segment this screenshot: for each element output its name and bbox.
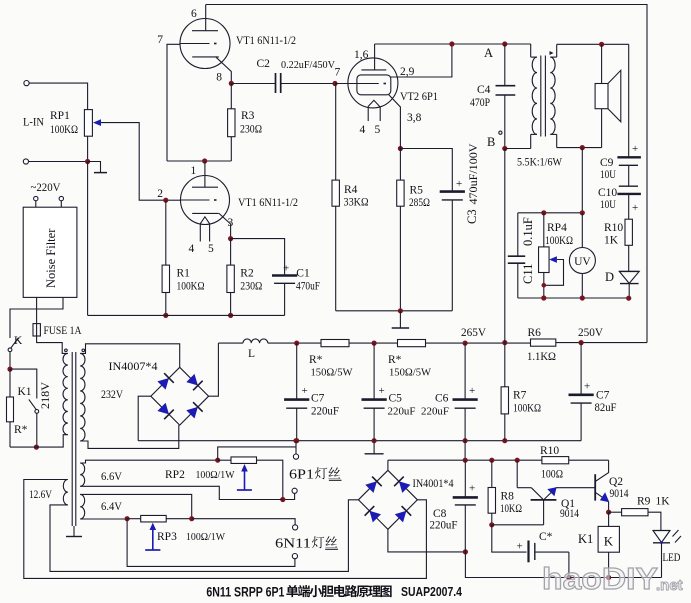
wire C* right down to negative rail <box>568 552 570 577</box>
transformer T1 secondary 232V winding <box>80 353 85 441</box>
svg-text:R4: R4 <box>344 184 358 196</box>
svg-text:220uF: 220uF <box>421 406 449 418</box>
svg-text:470P: 470P <box>470 97 490 109</box>
svg-text:100KΩ: 100KΩ <box>513 403 541 415</box>
svg-text:3: 3 <box>228 217 234 229</box>
transformer T2 secondary winding <box>550 57 555 134</box>
wire ground rail under R1 R2 C1 <box>88 314 285 316</box>
svg-text:6N11: 6N11 <box>275 536 311 551</box>
node RP2 right bottom <box>280 497 285 502</box>
svg-text:RP2: RP2 <box>165 469 185 481</box>
svg-text:100Ω/1W: 100Ω/1W <box>196 469 236 481</box>
svg-text:B: B <box>487 135 495 149</box>
wire VT2 top to output transformer <box>375 43 531 45</box>
capacitor C8 220uF <box>464 460 466 497</box>
wire B+ filter rail <box>218 342 243 344</box>
svg-text:232V: 232V <box>101 387 123 401</box>
transformer T1 6.4V winding <box>80 494 85 519</box>
node RP2 left <box>215 458 220 463</box>
node secondary bottom tap <box>580 145 585 150</box>
svg-text:C10: C10 <box>598 187 617 199</box>
wire heater terminal 4 return <box>127 519 295 567</box>
resistor R1 100K <box>165 200 167 265</box>
capacitor C3 470uF/100V <box>451 191 453 193</box>
wire VT1a plate pin6 stub <box>205 5 207 32</box>
wire negative rail down and right <box>465 552 661 578</box>
node C8 bottom <box>463 549 468 554</box>
svg-text:R8: R8 <box>501 491 515 503</box>
potentiometer RP4 wiper arrow <box>549 256 557 263</box>
potentiometer RP1 wiper arrow <box>93 119 101 126</box>
svg-text:230Ω: 230Ω <box>240 281 262 293</box>
wire 6.6V top to RP2 <box>80 460 218 463</box>
wire input lower to ground node <box>29 161 88 163</box>
speaker body <box>595 84 608 109</box>
wire RP1 wiper to VT1b grid node <box>101 123 166 201</box>
wire VT1b cathode diagonal pin3 <box>219 213 231 238</box>
relay coil K box <box>598 526 619 552</box>
wire LED to negative rail <box>661 543 663 578</box>
svg-text:1: 1 <box>191 165 197 177</box>
transformer T1 primary 218V winding <box>63 353 68 434</box>
wire bridge positive up to B+ rail <box>209 343 219 396</box>
ground bar RP2 <box>237 489 252 491</box>
svg-text:100KΩ: 100KΩ <box>545 235 573 247</box>
resistor R8 10K <box>491 460 493 487</box>
wire speaker top lead <box>601 44 603 83</box>
terminal 6P1 heater b <box>292 488 297 493</box>
svg-text:12.6V: 12.6V <box>29 489 53 501</box>
svg-text:470uF/100V: 470uF/100V <box>466 143 480 204</box>
wire bridge negative to main rail <box>138 396 151 441</box>
svg-text:1,6: 1,6 <box>354 49 369 61</box>
svg-text:1K: 1K <box>656 496 671 508</box>
wire VT2 heater pin5 stub <box>379 107 381 121</box>
svg-text:haoDIY: haoDIY <box>542 561 658 596</box>
svg-text:218V: 218V <box>38 382 52 409</box>
svg-text:C2: C2 <box>257 58 271 70</box>
node 265V junction <box>463 341 468 346</box>
wire mains stubs into filter <box>35 201 37 207</box>
capacitor C5 220uF <box>373 343 375 400</box>
svg-text:100KΩ: 100KΩ <box>50 124 78 136</box>
svg-text:6P1: 6P1 <box>289 467 314 482</box>
svg-text:C5: C5 <box>389 393 403 405</box>
svg-text:R10: R10 <box>540 445 559 457</box>
heater chevron VT1b <box>200 217 209 224</box>
relay contact K1 terminal <box>35 410 39 414</box>
pentode VT2 heater chevron <box>368 100 380 106</box>
svg-text:220uF: 220uF <box>430 520 458 532</box>
svg-text:C1: C1 <box>296 268 310 280</box>
wire Q1 emitter to Q2 base <box>556 487 595 489</box>
svg-text:150Ω/5W: 150Ω/5W <box>311 367 354 379</box>
diode D <box>619 270 639 272</box>
resistor R4 33K <box>335 84 337 181</box>
wire pin8 to C2 <box>231 83 275 85</box>
svg-text:FUSE 1A: FUSE 1A <box>44 325 83 337</box>
wire branch to K1 contact <box>10 369 37 398</box>
svg-text:470uF: 470uF <box>296 281 320 293</box>
svg-text:C7: C7 <box>311 393 325 405</box>
svg-text:285Ω: 285Ω <box>409 197 430 209</box>
node R2 bottom <box>228 313 233 318</box>
terminal mains right <box>59 196 63 200</box>
wire VT1a grid pin7 to left and down <box>167 44 180 161</box>
potentiometer RP2 100ohm body <box>231 457 257 464</box>
node 6P1 heater rail junction <box>293 438 298 443</box>
transistor Q1 9014 <box>516 460 518 488</box>
caption title chinese <box>286 585 391 597</box>
wire VT2 plate 2,9 to A node <box>391 44 452 77</box>
node main rail R7 junction <box>502 438 507 443</box>
terminal 6N11 heater a <box>293 525 298 530</box>
pentode VT2 6P1 envelope <box>348 58 398 108</box>
svg-text:5: 5 <box>208 243 214 255</box>
node R1 bottom <box>163 313 168 318</box>
switch K blade <box>11 338 19 348</box>
wire heater terminal 2 stub <box>283 493 295 499</box>
transformer T1 phase dot left <box>65 349 68 352</box>
potentiometer RP1 100K body <box>84 110 92 137</box>
svg-text:+: + <box>632 202 638 214</box>
wire 6.4V top to RP3 right <box>80 494 192 518</box>
svg-text:K1: K1 <box>578 532 593 546</box>
wire Q2 emitter to R9 <box>609 511 622 513</box>
svg-text:RP1: RP1 <box>50 110 70 122</box>
node K branch <box>7 367 12 372</box>
resistor R6 1.1K <box>531 339 556 346</box>
svg-text:R7: R7 <box>513 390 527 402</box>
svg-text:R6: R6 <box>528 327 542 339</box>
node main rail C7 junction <box>294 438 299 443</box>
svg-text:7: 7 <box>335 67 341 79</box>
node choke output C7 top <box>294 341 299 346</box>
wire speaker top rail down to C9 <box>628 44 630 157</box>
node primary bottom junction <box>34 445 39 450</box>
wire secondary bottom to speaker <box>557 147 602 149</box>
svg-text:+: + <box>517 541 523 553</box>
node RP4 top <box>541 210 546 215</box>
wire K to branch node <box>9 352 11 369</box>
svg-text:1.1KΩ: 1.1KΩ <box>527 351 556 363</box>
wire 232V top to bridge <box>80 344 180 368</box>
svg-text:82uF: 82uF <box>595 402 617 414</box>
ground symbol on main rail <box>373 441 375 454</box>
svg-text:0.1uF: 0.1uF <box>521 217 535 246</box>
svg-text:+: + <box>584 381 590 393</box>
svg-text:VT2 6P1: VT2 6P1 <box>400 89 438 103</box>
wire T2 secondary top stub <box>556 44 558 57</box>
svg-text:9014: 9014 <box>560 508 579 520</box>
wire heater terminal 1 stub <box>295 441 297 454</box>
speaker cone <box>608 70 621 122</box>
node input ground junction <box>85 159 90 164</box>
ground bar RP3 <box>145 549 160 551</box>
svg-text:9014: 9014 <box>610 488 629 500</box>
svg-text:VT1 6N11-1/2: VT1 6N11-1/2 <box>238 195 298 209</box>
wire RP1 bottom to ground node <box>87 136 89 161</box>
svg-text:C6: C6 <box>435 393 449 405</box>
svg-text:1K: 1K <box>604 235 619 247</box>
svg-text:C7: C7 <box>596 390 610 402</box>
svg-text:Q2: Q2 <box>609 476 623 488</box>
wire VT1b heater pin4 stub <box>199 224 201 242</box>
node Q2 emitter <box>606 510 611 515</box>
svg-text:RP3: RP3 <box>157 531 177 543</box>
wire VT2 heater pin4 stub <box>367 107 369 121</box>
svg-text:R*: R* <box>388 354 402 366</box>
svg-text:100Ω/1W: 100Ω/1W <box>186 531 226 543</box>
node UV bottom <box>580 295 585 300</box>
wire B node to primary bottom <box>505 148 531 150</box>
wire ground bus down left side <box>87 162 89 316</box>
wire B+ top rail from VT1 plate to right side down to 250V rail <box>206 5 647 343</box>
diode LED <box>653 530 670 532</box>
svg-text:D: D <box>605 270 614 284</box>
capacitor C9 10U <box>617 156 641 158</box>
node VT1b plate junction <box>202 158 207 163</box>
wire VT2 cathode 3,8 down <box>389 95 401 149</box>
label 6P1 heater chinese <box>315 467 340 479</box>
svg-text:10KΩ: 10KΩ <box>500 503 522 515</box>
wire input to RP1 top <box>29 83 88 110</box>
svg-text:6N11 SRPP 6P1: 6N11 SRPP 6P1 <box>206 585 284 600</box>
terminal 6P1 heater a <box>293 454 298 459</box>
wire RP2 left lead <box>218 459 231 461</box>
wire 232V bottom to bridge <box>80 425 179 448</box>
svg-text:K1: K1 <box>18 386 32 398</box>
svg-text:0.22uF/450V: 0.22uF/450V <box>281 59 335 71</box>
inductor L choke <box>243 339 268 343</box>
svg-text:+: + <box>379 385 385 397</box>
wire bridge IN4001 negative <box>388 529 466 552</box>
capacitor C* electrolytic <box>527 541 529 563</box>
svg-text:+: + <box>283 263 289 275</box>
wire R4 R5 C3 bottom bus <box>336 310 453 312</box>
wire left loop bottom <box>167 160 231 162</box>
triode VT1b (6N11 1/2 lower) envelope and electrodes <box>181 176 230 225</box>
node speaker top <box>599 42 604 47</box>
capacitor C7 82uF <box>580 343 582 395</box>
transformer T2 phase mark top <box>550 51 554 55</box>
capacitor C7 220uF <box>296 343 298 400</box>
svg-text:R*: R* <box>14 424 28 436</box>
node R8 top <box>489 458 494 463</box>
svg-text:10U: 10U <box>600 199 617 211</box>
ground symbol below R5 <box>399 311 401 328</box>
node A <box>502 41 507 46</box>
resistor R10 100ohm <box>542 457 569 464</box>
wire filter right output to switch K <box>10 297 63 338</box>
wire cathode to C1 <box>231 239 285 268</box>
wire UV top lead <box>581 213 583 248</box>
node RP3 right <box>189 516 194 521</box>
node R8 bottom <box>489 522 494 527</box>
terminal input jack upper <box>24 81 29 86</box>
svg-text:L-IN: L-IN <box>23 117 45 129</box>
node RP4 wiper tie <box>542 283 547 288</box>
svg-text:.net: .net <box>656 577 683 594</box>
wire R10 to Q2 collector <box>595 460 608 481</box>
wire Q2 emitter to relay <box>608 512 610 526</box>
capacitor C6 220uF <box>464 343 466 400</box>
resistor R7 100K bleeder <box>504 343 506 387</box>
resistor R9 1K <box>622 509 648 516</box>
node 250V junction <box>579 340 584 345</box>
node pin8 junction <box>229 81 234 86</box>
relay contact K1 blade <box>29 399 36 409</box>
svg-text:R1: R1 <box>177 268 191 280</box>
node Q1 collector feed <box>515 458 520 463</box>
wire secondary tap down to detector <box>581 148 583 213</box>
transistor Q2 9014 <box>594 474 596 500</box>
transformer T1 core ground <box>73 526 75 537</box>
svg-text:C9: C9 <box>600 157 614 169</box>
svg-text:+: + <box>456 178 462 190</box>
wire RP3 right lead <box>166 518 192 520</box>
svg-text:250V: 250V <box>578 327 604 339</box>
svg-text:+: + <box>302 385 308 397</box>
svg-text:R10: R10 <box>604 222 623 234</box>
LED light rays <box>673 530 679 537</box>
terminal 6N11 heater b <box>292 554 297 559</box>
svg-text:IN4007*4: IN4007*4 <box>109 361 158 373</box>
svg-text:265V: 265V <box>461 327 487 339</box>
svg-text:RP4: RP4 <box>547 222 567 234</box>
capacitor C2 0.22uF/450V plates <box>275 73 277 93</box>
resistor R* 150ohm 5W second <box>398 340 426 347</box>
svg-text:+: + <box>469 385 475 397</box>
wire fuse to transformer primary top <box>37 336 68 353</box>
node plate screen tie <box>449 41 454 46</box>
svg-text:4: 4 <box>360 124 366 136</box>
wire RP2 left link up <box>218 447 296 460</box>
node UV top <box>580 210 585 215</box>
svg-text:7: 7 <box>157 34 163 46</box>
potentiometer RP3 100ohm body <box>141 515 167 522</box>
transformer T2 core <box>540 56 542 137</box>
svg-text:L: L <box>248 348 255 360</box>
wire rail link C6 to C8 <box>464 441 466 461</box>
wire relay to negative rail <box>608 552 610 577</box>
svg-text:SUAP2007.4: SUAP2007.4 <box>401 585 462 599</box>
wire filter left output to fuse <box>36 297 38 323</box>
wire K1 to primary bottom <box>36 413 38 447</box>
svg-text:4: 4 <box>189 243 195 255</box>
capacitor C10 10U <box>619 185 638 187</box>
wire VT2 screen pins 1,6 top stub <box>374 44 376 70</box>
node main rail C6 junction <box>463 438 468 443</box>
transformer T2 output primary winding <box>532 57 537 134</box>
wire RP4 wiper loop <box>544 260 564 286</box>
wire detector top bus <box>518 212 583 214</box>
noise filter box <box>23 207 77 297</box>
wire R8 bottom to Q1 base <box>492 524 544 526</box>
svg-text:5.5K:1/6W: 5.5K:1/6W <box>517 155 563 169</box>
switch K contact <box>8 348 12 352</box>
wire speaker bottom lead <box>601 109 603 148</box>
wire cathode to C3 <box>400 149 452 192</box>
svg-text:K: K <box>14 335 23 347</box>
svg-text:10U: 10U <box>600 169 617 181</box>
svg-text:+: + <box>469 483 475 495</box>
wire primary bottom <box>10 435 68 447</box>
node C8 top <box>463 458 468 463</box>
transformer T1 core <box>71 352 73 526</box>
svg-text:C8: C8 <box>433 508 447 520</box>
transformer T1 12.6V winding <box>63 480 68 505</box>
wire RP3 right to heater terminal 3 <box>192 519 295 525</box>
wire 6.6V bottom return <box>80 486 283 499</box>
wire main negative rail <box>138 440 581 442</box>
resistor R10 1K <box>628 218 630 220</box>
capacitor C11 0.1uF <box>517 213 519 256</box>
node R5 bottom junction <box>398 308 403 313</box>
svg-text:150Ω/5W: 150Ω/5W <box>389 367 432 379</box>
svg-text:+: + <box>632 143 638 155</box>
resistor R-star soft start <box>9 369 11 397</box>
svg-text:K: K <box>604 534 614 549</box>
node VT1b grid junction <box>163 198 168 203</box>
node main rail C5 junction <box>372 438 377 443</box>
terminal input jack lower <box>23 159 28 164</box>
svg-text:5: 5 <box>375 124 381 136</box>
svg-text:2,9: 2,9 <box>400 66 415 78</box>
svg-text:A: A <box>484 46 493 60</box>
svg-text:IN4001*4: IN4001*4 <box>413 478 454 490</box>
transformer T1 6.6V winding <box>80 463 85 486</box>
svg-text:230Ω: 230Ω <box>240 124 262 136</box>
svg-text:UV: UV <box>574 256 591 268</box>
svg-text:C3: C3 <box>465 209 479 224</box>
wire T2 primary bottom stub <box>531 133 537 135</box>
wire T2 primary top stub <box>530 44 532 57</box>
wire VT1b heater pin5 stub <box>209 224 211 242</box>
wire VT1a cathode diagonal to pin8 <box>216 57 231 83</box>
svg-text:220uF: 220uF <box>311 406 339 418</box>
wire RP2 right lead <box>257 460 283 499</box>
label 6N11 heater chinese <box>312 536 337 548</box>
potentiometer RP2 wiper arrow <box>241 464 248 472</box>
resistor R5 285ohm <box>399 149 401 181</box>
wire T2 secondary bottom stub <box>550 133 556 135</box>
svg-text:R9: R9 <box>637 496 651 508</box>
node D bottom <box>626 296 631 301</box>
wire B node down to 265V rail <box>504 149 506 343</box>
capacitor C1 470uF <box>284 268 286 276</box>
svg-text:33KΩ: 33KΩ <box>344 197 369 209</box>
svg-text:C4: C4 <box>477 84 491 96</box>
svg-text:Noise Filter: Noise Filter <box>44 228 58 288</box>
node C* negative <box>566 575 571 580</box>
wire RP3 left lead <box>127 518 141 520</box>
resistor R* 150ohm 5W first <box>321 340 349 347</box>
node B feed junction on rail <box>502 340 507 345</box>
transformer T1 phase dot right <box>82 349 85 352</box>
wire detector bottom bus <box>518 297 629 299</box>
wire relay supply rail <box>388 459 542 461</box>
svg-text:100Ω: 100Ω <box>541 469 563 481</box>
svg-text:R3: R3 <box>241 110 255 122</box>
node VT2 cathode junction <box>398 146 403 151</box>
wire 12.6V bottom to bridge left <box>50 500 358 572</box>
triode VT1a (6N11 1/2 upper) envelope and electrodes <box>180 19 230 69</box>
node RP3 left <box>125 516 130 521</box>
svg-text:8: 8 <box>216 72 222 84</box>
potentiometer RP4 100K body <box>543 213 545 247</box>
svg-text:R5: R5 <box>410 185 424 197</box>
